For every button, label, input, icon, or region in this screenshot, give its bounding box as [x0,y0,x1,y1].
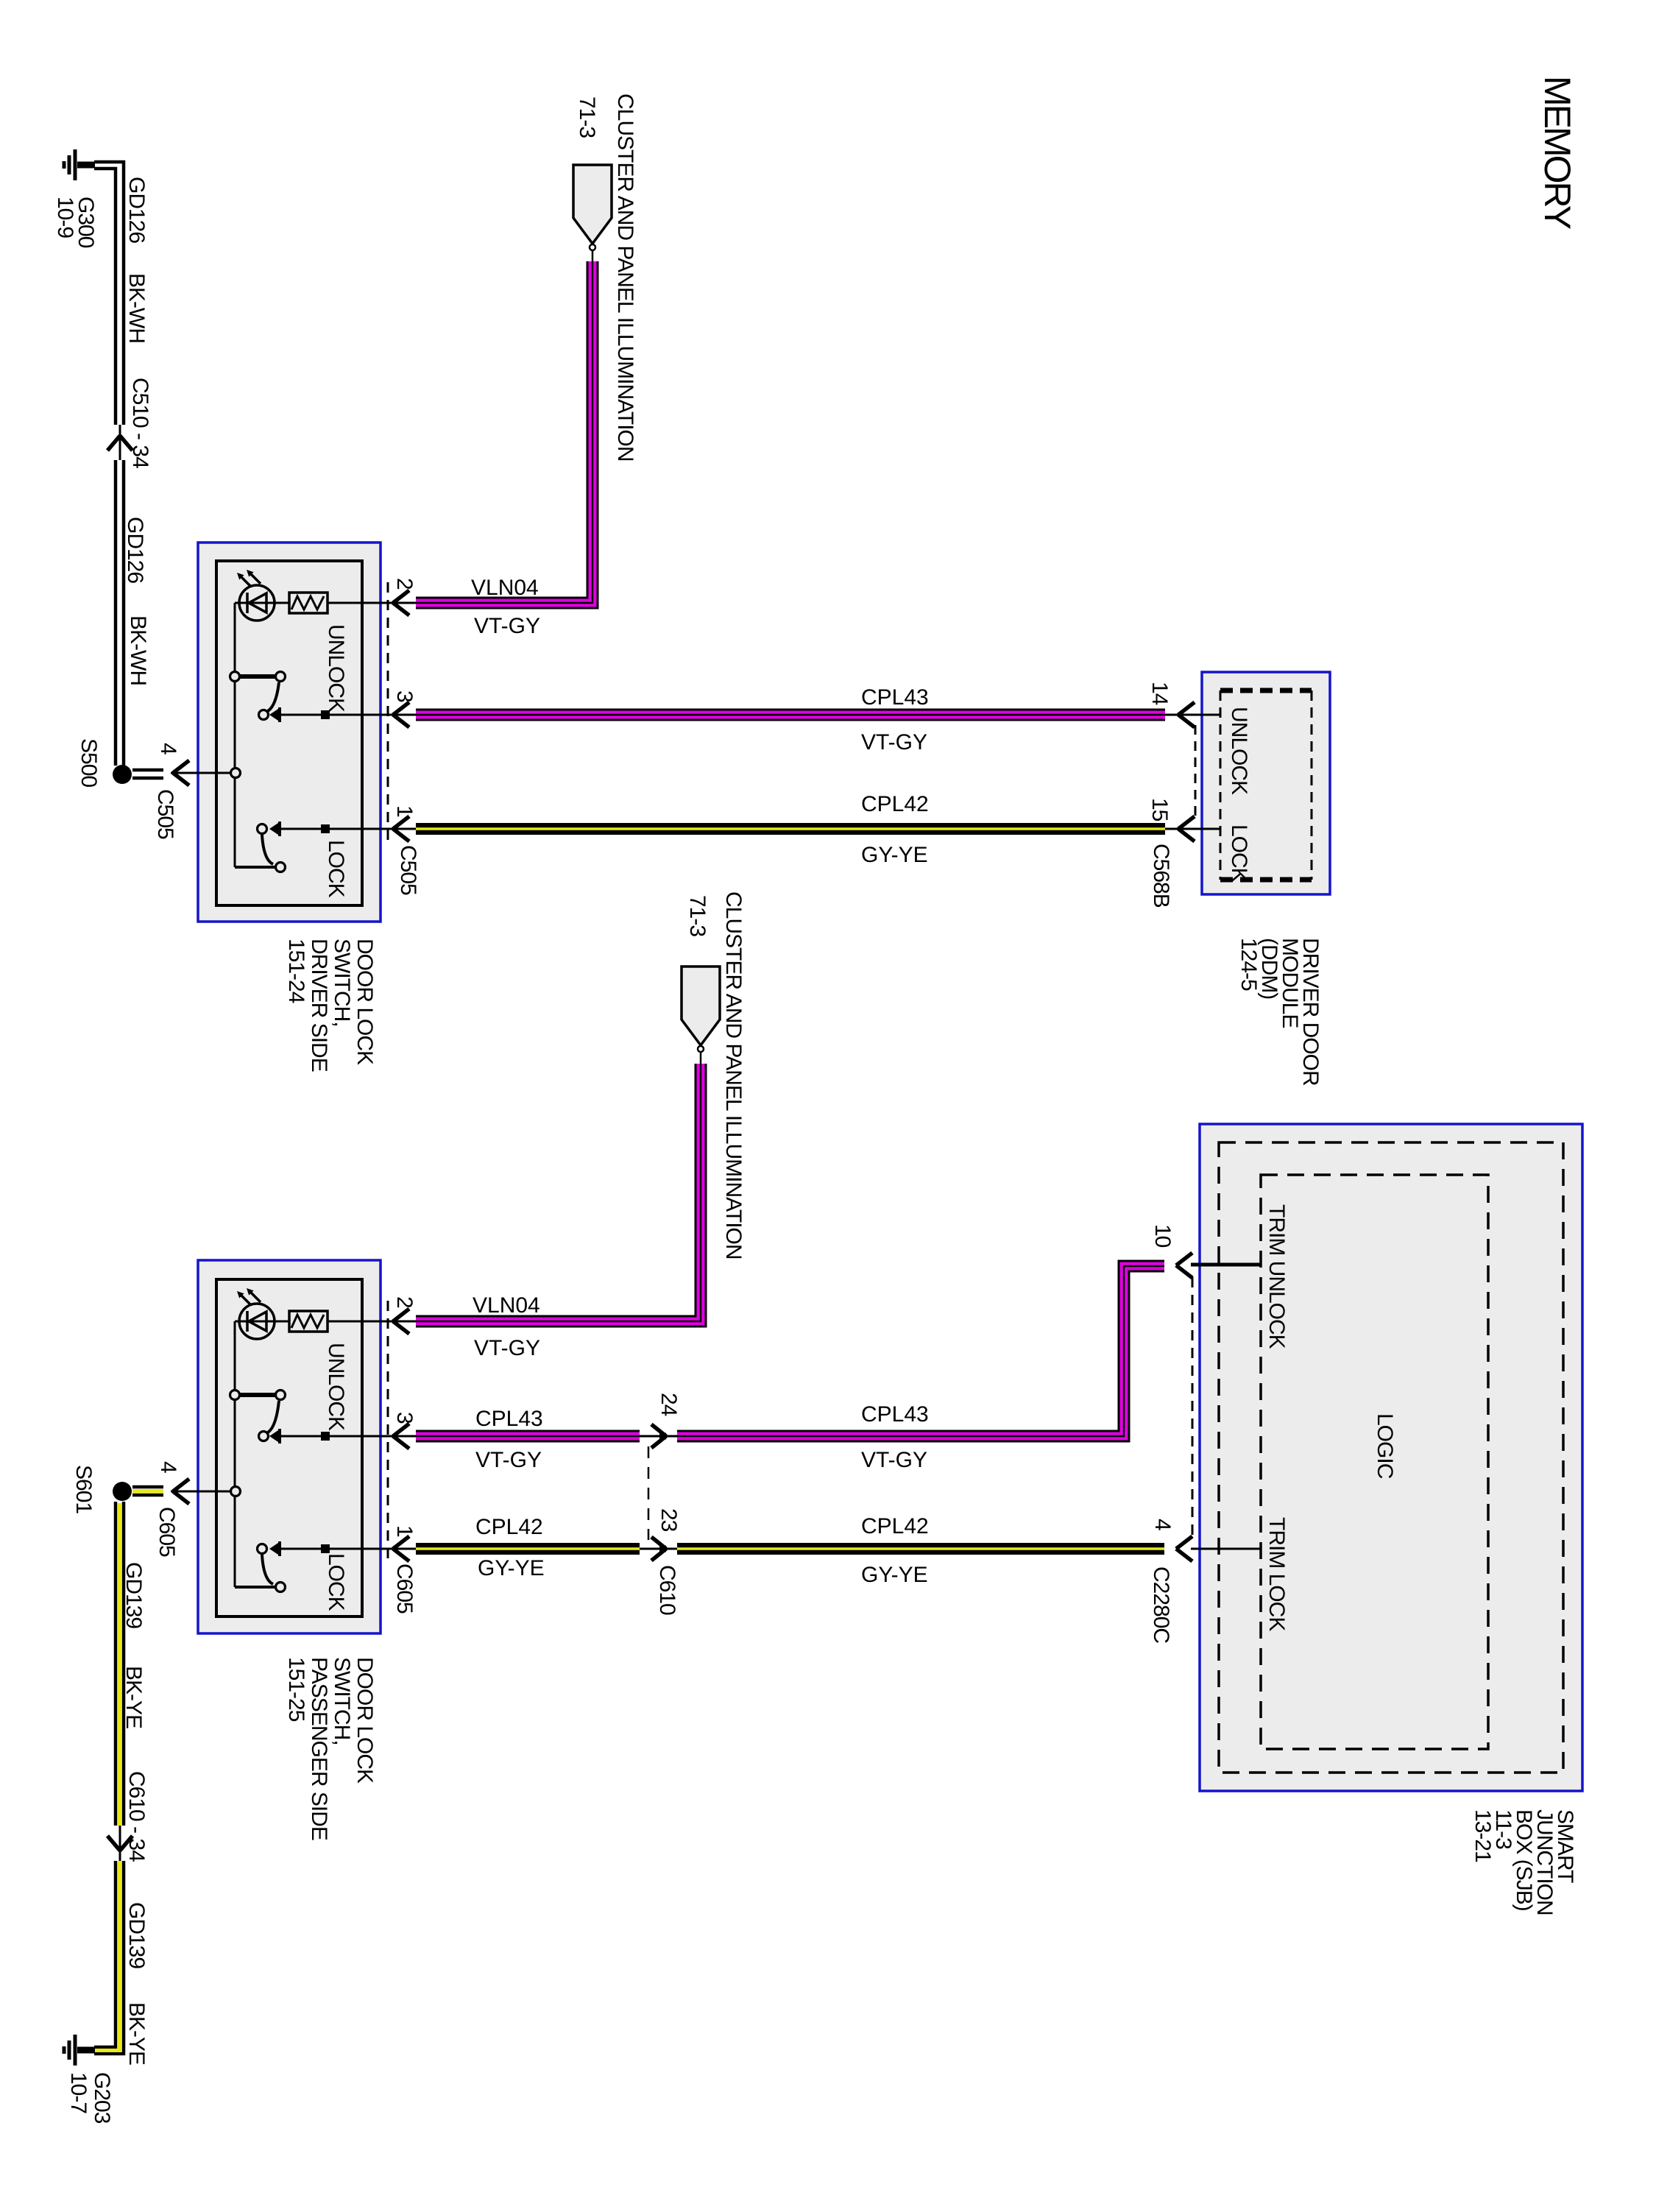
svg-text:LOCK: LOCK [1227,824,1251,883]
door lock switch driver pin 1 line [280,828,416,830]
door lock switch passenger pin 1 line [280,1548,416,1550]
wire GD139 BK-YE lower [94,1861,124,2054]
door lock switch driver connector dashes [387,582,389,844]
ground G203 [77,2047,95,2054]
inline connector C610 pin 24 [640,1435,677,1438]
svg-text:71-3: 71-3 [575,96,599,138]
svg-text:2: 2 [392,1296,417,1308]
door lock switch passenger unlock contact [235,1393,278,1397]
wire CPL42 GY-YE passenger right [677,1543,1164,1555]
svg-text:TRIM UNLOCK: TRIM UNLOCK [1264,1204,1289,1349]
wire VLN04 VT-GY passenger [416,1064,701,1321]
svg-text:151-25: 151-25 [284,1657,308,1722]
svg-text:VT-GY: VT-GY [861,1448,927,1472]
svg-text:LOCK: LOCK [324,840,348,898]
svg-text:71-3: 71-3 [685,895,710,936]
inline connector C610 pin 23 [640,1548,677,1550]
svg-text:VLN04: VLN04 [473,1293,540,1318]
svg-text:1: 1 [392,1525,417,1537]
wire VLN04 VT-GY driver [416,261,592,603]
door lock switch passenger LED [235,1321,289,1323]
door lock switch passenger resistor [289,1311,328,1332]
C610 connector dashes [648,1446,650,1540]
svg-text:CPL43: CPL43 [475,1407,543,1431]
svg-text:CPL43: CPL43 [861,1402,929,1427]
SJB pin 10 [1191,1263,1260,1267]
driver door module DDM box [1202,672,1330,894]
wire CPL43 VT-GY passenger right [677,1266,1164,1436]
splice S601 [113,1482,132,1501]
svg-text:10-9: 10-9 [53,197,77,238]
svg-text:SWITCH,: SWITCH, [330,939,354,1027]
door lock switch driver box [198,543,381,922]
wire GD126 BK-WH lower [116,460,124,766]
smart junction box SJB [1200,1124,1582,1791]
door lock switch passenger pin 4 line [171,1491,236,1493]
wire CPL42 GY-YE driver [416,823,1165,835]
svg-text:GY-YE: GY-YE [861,843,928,867]
stub to C605 pin4 [132,1487,163,1495]
svg-text:MEMORY: MEMORY [1537,76,1578,230]
svg-text:15: 15 [1147,798,1172,821]
door lock switch driver common wire [234,603,236,867]
svg-text:GD139: GD139 [121,1562,146,1628]
svg-text:S601: S601 [71,1465,96,1513]
svg-text:1: 1 [392,805,417,817]
svg-text:124-5: 124-5 [1236,938,1261,991]
svg-text:C505: C505 [153,789,177,839]
svg-text:VT-GY: VT-GY [474,614,540,638]
svg-text:GY-YE: GY-YE [478,1556,545,1580]
svg-text:C2280C: C2280C [1149,1566,1173,1643]
ground G300 [77,162,95,169]
svg-text:TRIM LOCK: TRIM LOCK [1264,1517,1289,1631]
svg-text:PASSENGER SIDE: PASSENGER SIDE [307,1657,331,1840]
off-page connector cluster illumination driver [573,165,612,244]
svg-text:2: 2 [392,578,417,590]
DDM connector dashes [1195,725,1197,819]
door lock switch passenger lock contact [258,1544,267,1554]
svg-text:BK-WH: BK-WH [126,615,150,685]
wire CPL43 VT-GY passenger left [416,1430,640,1443]
svg-text:GY-YE: GY-YE [861,1563,928,1587]
svg-text:GD126: GD126 [124,177,149,243]
door lock switch passenger connector dashes [387,1301,389,1563]
svg-text:13-21: 13-21 [1471,1809,1495,1862]
splice S500 [113,765,132,784]
svg-text:C610: C610 [655,1565,679,1615]
svg-text:GD126: GD126 [123,517,147,583]
svg-text:SWITCH,: SWITCH, [330,1657,354,1745]
door lock switch driver unlock contact [235,674,278,679]
svg-text:DOOR LOCK: DOOR LOCK [353,1657,377,1784]
off-page connector cluster illumination passenger [682,967,720,1045]
SJB pin 4 [1191,1548,1260,1550]
svg-text:DRIVER SIDE: DRIVER SIDE [307,939,331,1072]
svg-text:C605: C605 [155,1507,179,1557]
svg-text:S500: S500 [77,738,101,787]
svg-text:C568B: C568B [1149,844,1173,908]
door lock switch driver pin 3 line [280,714,416,716]
svg-text:151-24: 151-24 [284,939,308,1003]
door lock switch driver pin 4 line [171,772,236,774]
wire CPL43 VT-GY driver [416,709,1165,721]
wire GD139 BK-YE upper [116,1502,124,1826]
DDM pin 15 [1165,828,1220,830]
door lock switch driver pin 2 line [328,602,416,604]
svg-text:GD139: GD139 [124,1902,149,1968]
svg-text:BK-YE: BK-YE [124,2002,149,2065]
svg-text:C510 - 34: C510 - 34 [128,378,152,468]
svg-text:CPL42: CPL42 [861,792,929,816]
svg-text:24: 24 [657,1393,681,1416]
svg-text:4: 4 [1150,1519,1175,1530]
svg-text:VT-GY: VT-GY [861,730,927,755]
svg-text:BK-WH: BK-WH [124,273,149,343]
svg-text:VT-GY: VT-GY [475,1448,542,1472]
svg-text:G203: G203 [90,2072,114,2124]
svg-text:LOCK: LOCK [324,1553,348,1611]
svg-text:VLN04: VLN04 [471,576,539,600]
svg-text:VT-GY: VT-GY [474,1336,540,1360]
door lock switch passenger box [198,1260,381,1633]
svg-text:CLUSTER AND PANEL ILLUMINATION: CLUSTER AND PANEL ILLUMINATION [613,93,637,462]
svg-text:DOOR LOCK: DOOR LOCK [353,939,377,1065]
door lock switch passenger common wire [234,1321,236,1587]
SJB connector dashes [1192,1277,1194,1538]
svg-text:UNLOCK: UNLOCK [1227,707,1251,795]
svg-text:C610 - 34: C610 - 34 [124,1771,149,1862]
svg-text:C605: C605 [392,1563,417,1614]
svg-text:UNLOCK: UNLOCK [324,1343,348,1431]
svg-text:CPL42: CPL42 [475,1515,543,1539]
wire CPL42 GY-YE passenger left [416,1543,640,1555]
svg-text:CPL42: CPL42 [861,1514,929,1538]
svg-text:C505: C505 [396,845,420,895]
svg-text:CLUSTER AND PANEL ILLUMINATION: CLUSTER AND PANEL ILLUMINATION [721,891,746,1259]
door lock switch passenger pin 3 line [280,1435,416,1438]
svg-text:23: 23 [657,1508,681,1532]
svg-text:4: 4 [156,1461,180,1473]
door lock switch driver resistor [289,593,328,613]
wire stub to C505 pin 4 [132,770,163,778]
svg-text:10-7: 10-7 [66,2072,91,2113]
svg-text:3: 3 [392,1412,417,1424]
svg-text:3: 3 [392,690,417,702]
door lock switch passenger pin 2 line [328,1321,416,1323]
svg-text:4: 4 [156,743,180,755]
svg-text:LOGIC: LOGIC [1373,1413,1397,1479]
svg-text:UNLOCK: UNLOCK [324,624,348,713]
svg-text:14: 14 [1147,682,1172,705]
svg-text:CPL43: CPL43 [861,685,929,710]
door lock switch driver lock contact [258,824,267,834]
door lock switch driver LED [235,602,289,604]
inline connector C510-34 [119,425,121,460]
DDM pin 14 [1165,714,1220,716]
wire GD126 BK-WH upper [94,162,124,425]
inline connector C610-34 [119,1826,121,1861]
svg-text:BK-YE: BK-YE [121,1666,146,1728]
svg-text:10: 10 [1150,1224,1175,1248]
